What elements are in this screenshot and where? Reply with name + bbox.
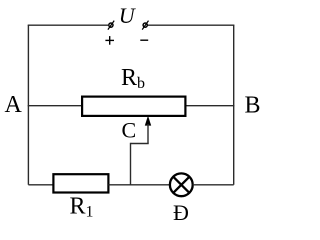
label: + polarity bbox=[105, 36, 114, 45]
resistor R1 body bbox=[53, 174, 108, 192]
wire: top right segment from - terminal bbox=[148, 24, 234, 26]
label: - polarity bbox=[140, 39, 148, 41]
svg-text:A: A bbox=[5, 92, 23, 118]
terminal: negative terminal of source U bbox=[142, 21, 148, 30]
rheostat Rb body bbox=[82, 97, 185, 116]
svg-text:B: B bbox=[245, 93, 261, 119]
wire: right rail (B side vertical) bbox=[233, 25, 235, 185]
wire: wiper horizontal jog bbox=[131, 143, 149, 145]
wire: bottom left corner to R1 bbox=[28, 184, 53, 186]
wiper arrow of rheostat (slider C) bbox=[145, 116, 151, 144]
svg-text:C: C bbox=[122, 118, 137, 143]
wire: wiper drop to bottom wire bbox=[130, 143, 132, 186]
svg-text:Rb: Rb bbox=[121, 65, 145, 92]
wire: A to Rb left bbox=[28, 105, 82, 107]
wire: R1 to lamp bbox=[108, 184, 169, 186]
svg-text:Đ: Đ bbox=[173, 200, 189, 223]
wire: top left segment to + terminal bbox=[28, 24, 108, 26]
wire: lamp to bottom right corner bbox=[193, 184, 234, 186]
wire: Rb right to B bbox=[186, 105, 235, 107]
svg-text:U: U bbox=[119, 3, 137, 28]
svg-text:R1: R1 bbox=[70, 194, 94, 221]
wire: left rail (A side vertical) bbox=[27, 25, 29, 185]
lamp D (circle with X) bbox=[170, 173, 193, 196]
terminal: positive terminal of source U bbox=[108, 21, 114, 30]
